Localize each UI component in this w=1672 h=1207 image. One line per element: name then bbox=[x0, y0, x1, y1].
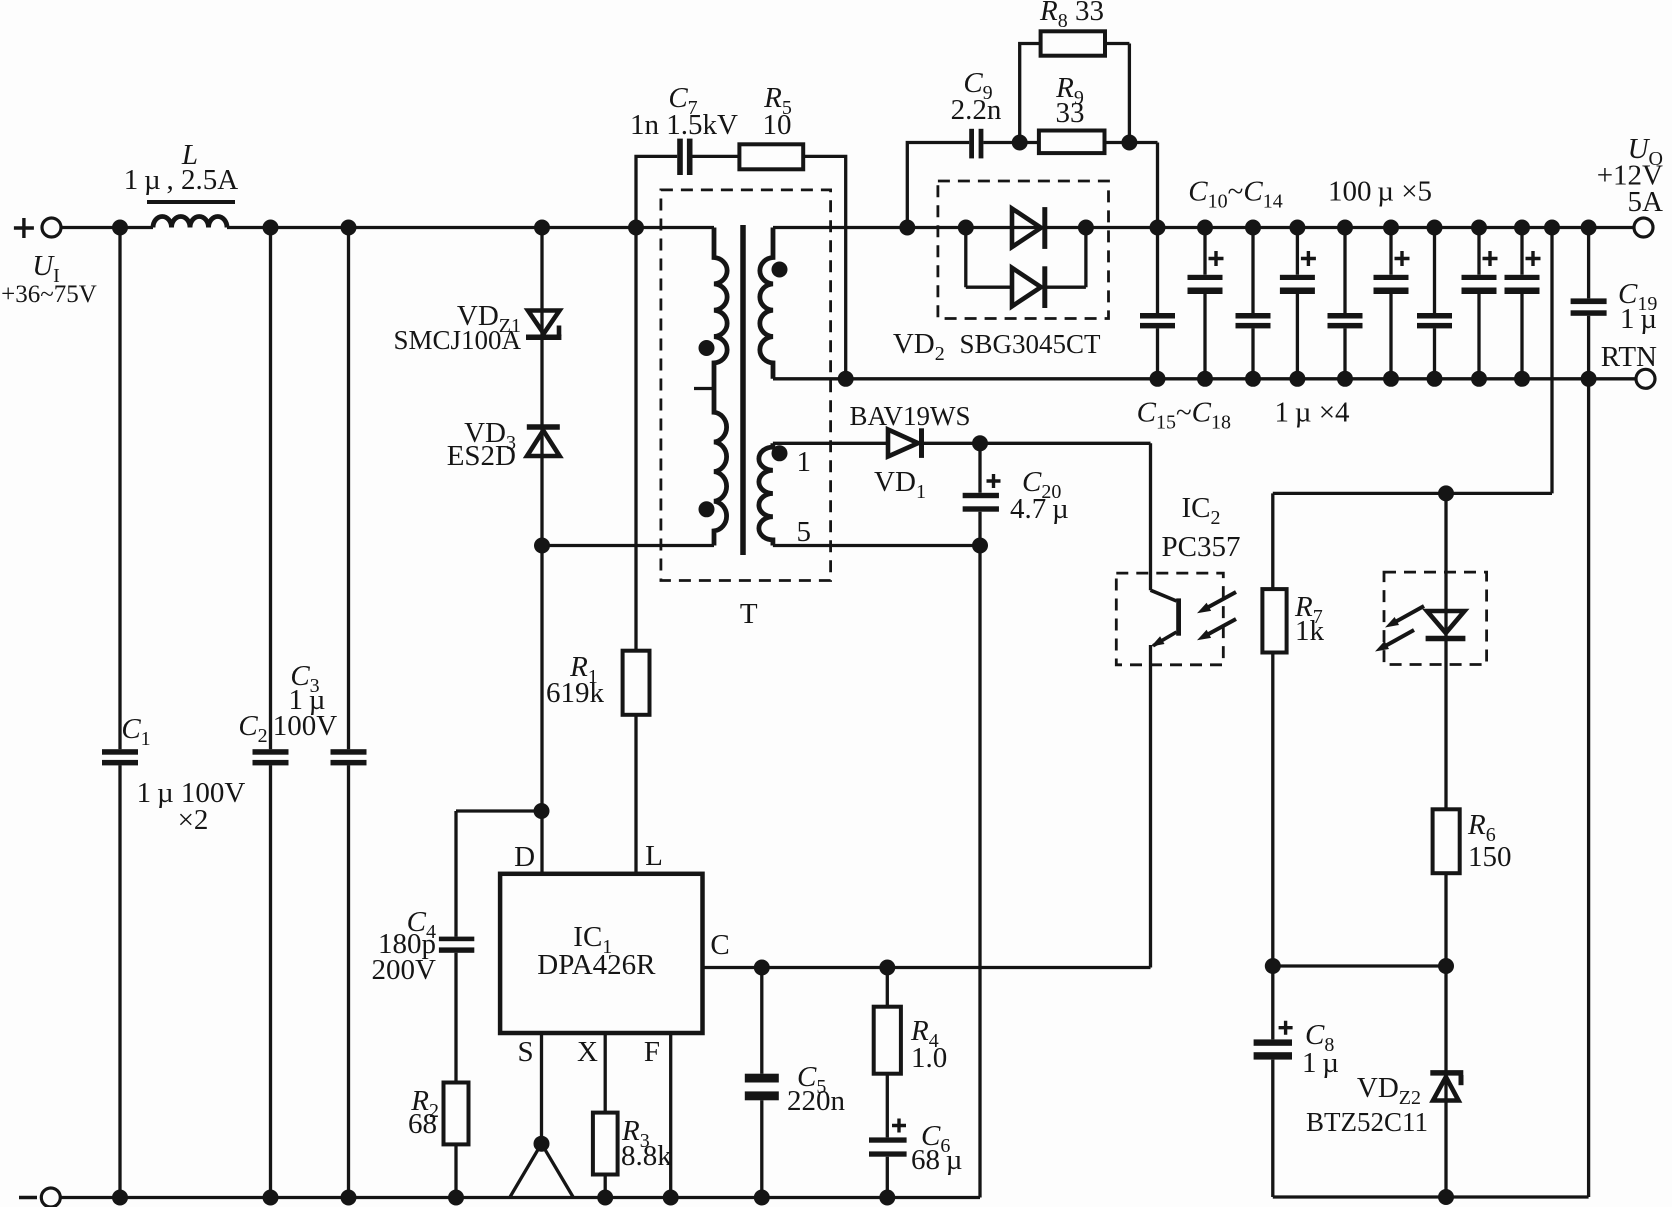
svg-text:5A: 5A bbox=[1628, 186, 1664, 218]
svg-text:S: S bbox=[518, 1036, 534, 1068]
svg-text:X: X bbox=[577, 1036, 598, 1068]
svg-text:4.7 µ: 4.7 µ bbox=[1010, 493, 1069, 525]
svg-text:1n 1.5kV: 1n 1.5kV bbox=[630, 109, 738, 141]
svg-text:68: 68 bbox=[408, 1108, 437, 1140]
svg-text:T: T bbox=[740, 598, 758, 630]
svg-text:L: L bbox=[645, 840, 663, 872]
svg-text:619k: 619k bbox=[546, 677, 605, 709]
svg-text:1 µ: 1 µ bbox=[1620, 303, 1657, 335]
svg-text:8.8k: 8.8k bbox=[621, 1140, 672, 1172]
svg-text:1.0: 1.0 bbox=[911, 1042, 947, 1074]
svg-text:×2: ×2 bbox=[178, 804, 209, 836]
svg-text:SMCJ100A: SMCJ100A bbox=[393, 325, 521, 355]
svg-text:100 µ ×5: 100 µ ×5 bbox=[1328, 176, 1432, 208]
svg-text:ES2D: ES2D bbox=[447, 440, 516, 472]
svg-text:68 µ: 68 µ bbox=[911, 1144, 963, 1176]
svg-text:SBG3045CT: SBG3045CT bbox=[959, 329, 1101, 359]
svg-text:1k: 1k bbox=[1295, 615, 1325, 647]
svg-text:D: D bbox=[514, 841, 535, 873]
svg-text:PC357: PC357 bbox=[1162, 531, 1241, 563]
svg-text:33: 33 bbox=[1056, 97, 1085, 129]
svg-text:1 µ , 2.5A: 1 µ , 2.5A bbox=[124, 164, 239, 196]
svg-text:1 µ ×4: 1 µ ×4 bbox=[1274, 396, 1350, 428]
svg-text:BAV19WS: BAV19WS bbox=[849, 401, 970, 431]
svg-text:200V: 200V bbox=[372, 954, 437, 986]
svg-text:5: 5 bbox=[797, 516, 812, 548]
svg-text:F: F bbox=[644, 1036, 660, 1068]
svg-text:DPA426R: DPA426R bbox=[537, 949, 656, 981]
svg-text:2.2n: 2.2n bbox=[951, 94, 1002, 126]
svg-text:100V: 100V bbox=[273, 710, 338, 742]
svg-text:C: C bbox=[710, 929, 729, 961]
svg-text:150: 150 bbox=[1468, 841, 1512, 873]
svg-text:RTN: RTN bbox=[1601, 341, 1657, 373]
svg-text:+36~75V: +36~75V bbox=[1, 281, 97, 308]
svg-text:BTZ52C11: BTZ52C11 bbox=[1306, 1107, 1428, 1137]
svg-text:220n: 220n bbox=[787, 1085, 846, 1117]
svg-text:1: 1 bbox=[797, 446, 812, 478]
svg-text:10: 10 bbox=[763, 109, 792, 141]
svg-text:1 µ: 1 µ bbox=[1302, 1047, 1339, 1079]
